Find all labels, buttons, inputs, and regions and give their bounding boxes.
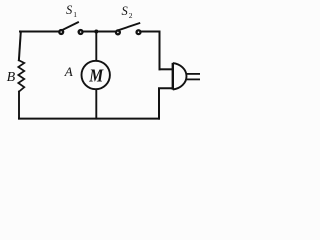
wire plug top lead	[160, 68, 172, 70]
motor branch wire lower	[95, 90, 97, 119]
wire top rail middle segment	[83, 31, 115, 33]
wire top rail right segment	[141, 31, 159, 33]
wire left vertical lower	[18, 92, 20, 119]
resistor B	[18, 60, 24, 91]
wire bottom rail	[19, 118, 159, 120]
plug connector arc	[173, 63, 187, 89]
svg-text:S: S	[66, 3, 73, 17]
motor branch wire upper	[95, 32, 97, 61]
plug prong upper	[186, 73, 200, 75]
motor M	[82, 61, 110, 89]
wire left vertical upper	[19, 32, 21, 61]
switch S2 terminal left	[116, 30, 120, 34]
svg-text:1: 1	[73, 10, 77, 19]
node junction dot	[94, 30, 98, 34]
switch S1 terminal right	[79, 30, 83, 34]
svg-text:B: B	[7, 70, 16, 85]
svg-text:2: 2	[129, 11, 133, 20]
wire plug bottom lead	[159, 88, 172, 118]
svg-text:M: M	[88, 66, 104, 86]
switch S2 terminal right	[137, 30, 141, 34]
switch S1 terminal left	[59, 30, 63, 34]
switch S1 blade	[63, 22, 78, 30]
plug connector body	[172, 63, 174, 90]
wire top rail left segment	[20, 31, 59, 33]
wire right vertical upper	[159, 32, 161, 70]
plug prong lower	[186, 78, 200, 80]
switch S2 blade	[119, 23, 139, 30]
svg-text:A: A	[64, 64, 73, 79]
svg-text:S: S	[122, 4, 129, 18]
